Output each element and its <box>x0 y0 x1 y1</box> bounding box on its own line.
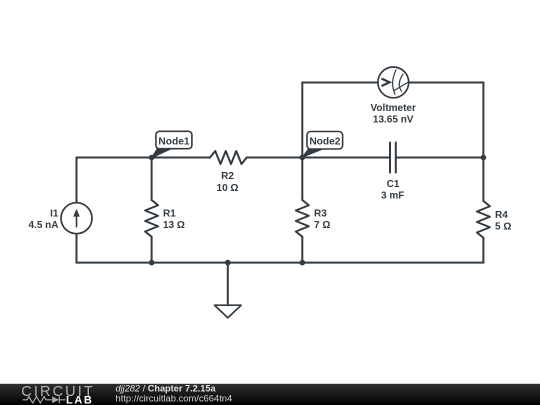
svg-text:R2: R2 <box>221 171 234 182</box>
node junction dot Node2 <box>300 155 306 161</box>
svg-text:R1: R1 <box>163 209 176 220</box>
wire right branch (rail to R4) <box>482 158 484 202</box>
wire top rail right (voltmeter to right branch) <box>409 82 484 84</box>
wire middle rail (R2 to Node2) <box>247 157 303 159</box>
node Node2 callout box <box>307 132 343 150</box>
resistor R2 zigzag <box>210 151 247 164</box>
svg-text:4.5 nA: 4.5 nA <box>28 220 58 231</box>
voltmeter glyph <box>382 69 409 94</box>
node junction dot bottom R1 <box>149 260 155 266</box>
footer logo resistor-diode glyph <box>23 396 66 403</box>
current source I1 arrow <box>73 209 80 228</box>
svg-text:10 Ω: 10 Ω <box>217 183 239 194</box>
svg-text:R4: R4 <box>495 210 508 221</box>
capacitor C1 plates <box>390 143 396 173</box>
ground symbol triangle <box>215 305 242 318</box>
svg-text:13.65 nV: 13.65 nV <box>373 114 414 125</box>
wire R1 branch upper <box>151 158 153 201</box>
wire right branch upper vertical <box>482 83 484 158</box>
node junction dot bottom R3 <box>300 260 306 266</box>
svg-text:C1: C1 <box>387 179 400 190</box>
svg-text:Voltmeter: Voltmeter <box>371 103 416 114</box>
svg-text:5 Ω: 5 Ω <box>495 221 511 232</box>
node junction dot bottom ground <box>225 260 231 266</box>
resistor R1 zigzag <box>145 200 158 237</box>
wire left branch upper (rail to I1) <box>76 158 78 203</box>
node Node1 callout pointer <box>152 149 172 158</box>
node junction dot Node1 <box>149 155 155 161</box>
resistor R3 zigzag <box>296 200 309 237</box>
svg-text:http://circuitlab.com/c664tn4: http://circuitlab.com/c664tn4 <box>116 392 233 403</box>
svg-text:7 Ω: 7 Ω <box>314 220 330 231</box>
svg-text:Node1: Node1 <box>158 136 189 147</box>
wire R1 branch lower <box>151 237 153 263</box>
svg-text:3 mF: 3 mF <box>381 190 404 201</box>
wire middle rail (C1 to right branch) <box>397 157 484 159</box>
wire middle rail left segment (source top to Node1) <box>77 157 152 159</box>
wire voltmeter loop left vertical <box>301 83 303 158</box>
wire middle rail (Node1 to R2) <box>152 157 210 159</box>
ground stem wire <box>227 263 229 306</box>
wire R4 branch lower <box>482 238 484 263</box>
wire left branch lower (I1 to bottom rail) <box>76 234 78 263</box>
voltmeter circle <box>378 67 409 98</box>
current source I1 circle <box>61 203 92 234</box>
svg-text:13 Ω: 13 Ω <box>163 220 185 231</box>
wire bottom rail <box>77 262 484 264</box>
node junction dot right mid rail <box>481 155 487 161</box>
svg-text:I1: I1 <box>50 209 59 220</box>
wire top rail left (to voltmeter) <box>302 82 378 84</box>
node Node1 callout box <box>156 131 192 148</box>
svg-text:Node2: Node2 <box>309 137 340 148</box>
node Node2 callout pointer <box>302 149 323 157</box>
wire R3 branch upper <box>301 158 303 201</box>
resistor R4 zigzag <box>477 201 490 238</box>
svg-text:LAB: LAB <box>66 395 93 405</box>
svg-text:R3: R3 <box>314 209 327 220</box>
wire middle rail (Node2 to C1) <box>302 157 389 159</box>
wire R3 branch lower <box>301 237 303 263</box>
